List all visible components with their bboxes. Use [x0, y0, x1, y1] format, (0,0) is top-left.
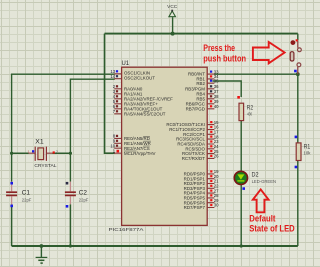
ground [36, 246, 48, 263]
wire: LED bottom [240, 184, 242, 246]
LED D2 [234, 171, 276, 190]
power VCC [167, 4, 178, 17]
wire: crystal left link [12, 152, 29, 154]
svg-text:RB7/PGD: RB7/PGD [186, 106, 205, 111]
svg-text:U1: U1 [122, 60, 130, 67]
svg-text:26: 26 [214, 154, 219, 159]
svg-text:RA5/AN4/SS/C2OUT: RA5/AN4/SS/C2OUT [124, 111, 166, 116]
node ground junction [40, 244, 44, 248]
svg-text:22pF: 22pF [22, 197, 32, 202]
crystal X1 [28, 139, 58, 169]
annotation arrow up [253, 189, 269, 212]
svg-text:1: 1 [28, 150, 30, 154]
resistor R2 [237, 96, 253, 121]
wire: MCLR vertical from VCC rail [105, 34, 115, 154]
svg-text:LED-GREEN: LED-GREEN [252, 179, 276, 184]
svg-text:D2: D2 [252, 172, 260, 179]
svg-text:40: 40 [214, 104, 219, 109]
chip right pin stubs [207, 74, 214, 207]
wire: top VCC rail [105, 33, 298, 35]
wire: OSC2 to middle column [70, 79, 114, 181]
U1 left pin end markers [116, 70, 119, 152]
svg-text:VCC: VCC [167, 4, 178, 10]
svg-text:R2: R2 [247, 104, 254, 111]
wire: R2 bottom to LED [240, 121, 242, 172]
wire: OSC1 to left column [12, 74, 115, 181]
node C2-bottom junction [69, 244, 72, 247]
svg-text:C2: C2 [79, 190, 88, 197]
capacitor C2 [65, 182, 89, 208]
svg-text:Default: Default [249, 213, 275, 223]
U1 right pin end markers [210, 71, 212, 207]
wire: C1 bottom [11, 204, 13, 246]
annotation: press the push button [203, 43, 246, 64]
wire: crystal right link [52, 152, 70, 154]
wire: button column down to R1 [297, 74, 299, 143]
svg-text:Press the: Press the [203, 43, 235, 53]
svg-text:14: 14 [110, 74, 115, 79]
svg-text:PIC16F877A: PIC16F877A [109, 227, 145, 232]
annotation arrow right [253, 42, 285, 63]
svg-text:State of LED: State of LED [249, 223, 295, 233]
chip left pin stubs [114, 74, 121, 153]
svg-text:X1: X1 [35, 139, 44, 146]
svg-text:400: 400 [247, 111, 252, 116]
U1 left pin numbers [110, 69, 115, 153]
wire: C2 bottom [69, 204, 71, 246]
svg-text:push button: push button [203, 54, 246, 64]
svg-text:10k: 10k [304, 151, 312, 156]
svg-text:RD7/PSP7: RD7/PSP7 [184, 205, 206, 210]
svg-text:2: 2 [56, 150, 58, 154]
wire: ground rail bottom [12, 245, 298, 247]
chip left pin names [124, 71, 173, 156]
svg-text:R1: R1 [304, 143, 311, 150]
svg-text:C1: C1 [22, 190, 31, 197]
wire: RB0 to button column [214, 73, 298, 75]
svg-text:RC7/RX/DT: RC7/RX/DT [182, 156, 205, 161]
U1 right pin numbers [214, 69, 219, 207]
node button-bottom junction [296, 72, 300, 76]
node VCC junction [171, 32, 175, 36]
node crystal-right junction [69, 152, 72, 155]
svg-text:OSC2/CLKOUT: OSC2/CLKOUT [124, 76, 155, 81]
node crystal-left junction [10, 152, 13, 155]
push button [290, 39, 301, 74]
wire: R1 bottom to ground rail [297, 161, 299, 247]
svg-text:30: 30 [214, 203, 219, 208]
wire: button top lead from VCC rail [297, 34, 299, 41]
capacitor C1 [6, 182, 32, 208]
svg-text:CRYSTAL: CRYSTAL [34, 163, 56, 169]
resistor R1 [295, 136, 312, 169]
svg-text:MCLR/Vpp/THV: MCLR/Vpp/THV [124, 151, 156, 156]
annotation: default state of LED [249, 213, 295, 233]
wire: RB2 to R2 [213, 81, 242, 97]
svg-text:RB2: RB2 [196, 81, 205, 86]
chip right pin names [166, 72, 205, 210]
wire: VCC drop [172, 17, 174, 33]
op-amp/microcontroller U1 PIC16F877A body [122, 67, 208, 225]
node LED-bottom junction [240, 244, 243, 247]
svg-text:22pF: 22pF [79, 197, 89, 202]
svg-text:35: 35 [214, 78, 219, 83]
